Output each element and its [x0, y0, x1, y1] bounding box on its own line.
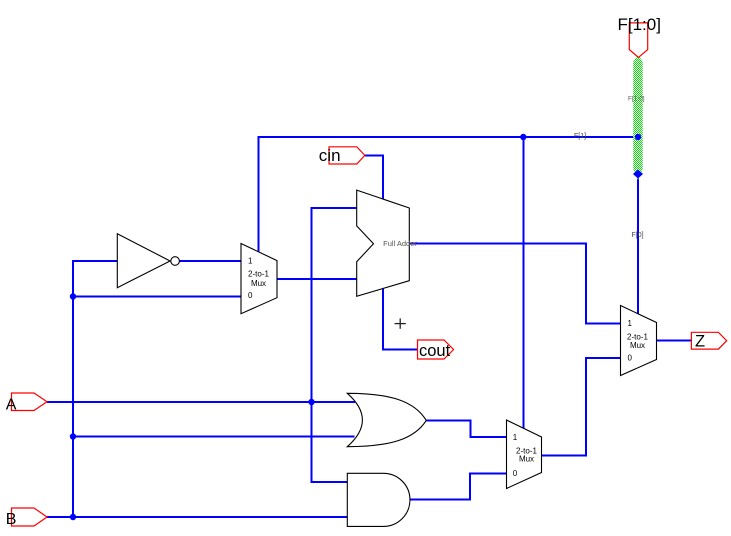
full adder U-ADD — [357, 190, 410, 296]
mux1 2-to-1 Mux (selects B or not-B) — [241, 244, 277, 314]
svg-text:1: 1 — [513, 433, 518, 442]
plus symbol under full adder — [395, 318, 406, 328]
bus F[1:0] green hatched — [633, 55, 643, 181]
svg-text:1: 1 — [248, 257, 253, 266]
wire AND output to logic mux 0-input — [410, 473, 507, 499]
svg-text:Mux: Mux — [630, 341, 645, 350]
svg-text:Z: Z — [695, 333, 705, 351]
wire logic mux output to output mux 0-input — [542, 358, 622, 455]
output port Z symbol — [691, 332, 726, 349]
svg-text:A: A — [6, 396, 17, 413]
logic mux 2-to-1 Mux (selects OR or AND) — [507, 420, 542, 489]
wire cin to full adder carry-in pin — [365, 156, 383, 200]
wire B net to OR gate bottom input — [73, 436, 355, 438]
wire A port to OR gate top input — [47, 401, 355, 403]
junction on F[1] wire at logic mux select — [520, 134, 526, 140]
wire select of logic mux from F[1] net down — [522, 137, 524, 430]
wire F[0] from bus bottom to output mux select — [637, 172, 639, 316]
svg-text:2-to-1: 2-to-1 — [248, 270, 269, 279]
junction A net on A wire — [308, 399, 314, 405]
svg-text:B: B — [6, 511, 17, 528]
svg-text:cout: cout — [419, 342, 451, 360]
svg-text:0: 0 — [628, 354, 633, 363]
wire FA carry-out to cout port — [383, 288, 418, 350]
svg-text:Mux: Mux — [251, 279, 266, 288]
svg-text:1: 1 — [628, 319, 633, 328]
wire output mux to Z port — [657, 340, 692, 342]
svg-text:F[1:0]: F[1:0] — [628, 95, 645, 102]
OR gate — [347, 393, 426, 446]
wire net F[1]: horizontal from mux1 select up to bus, with select drop — [259, 137, 639, 253]
svg-text:0: 0 — [248, 291, 253, 300]
wire inverter output to mux1 1-input — [180, 260, 242, 262]
wire B port to AND gate bottom input — [47, 516, 347, 518]
output mux 2-to-1 Mux (selects sum or logic) — [621, 306, 657, 376]
wire FA sum output to output mux 1-input — [409, 243, 621, 323]
svg-text:F[1]: F[1] — [574, 133, 586, 140]
svg-text:Full Adder: Full Adder — [383, 239, 417, 248]
svg-text:Mux: Mux — [519, 455, 534, 464]
wire B net to mux1 0-input — [73, 296, 242, 298]
svg-text:2-to-1: 2-to-1 — [627, 332, 648, 341]
junction B net on B wire — [70, 514, 76, 520]
input port B symbol — [12, 508, 48, 526]
AND gate — [347, 473, 410, 526]
bus end diamond at F[0] tap — [633, 170, 643, 179]
junction B net at mux1 0-input wire — [70, 293, 76, 299]
svg-text:F[1:0]: F[1:0] — [618, 15, 661, 34]
svg-text:cin: cin — [319, 146, 341, 165]
wire mux1 output to FA b-input — [277, 278, 357, 280]
output port cout symbol — [418, 340, 454, 359]
junction on bus at F[1] tap — [635, 134, 641, 140]
junction B net at OR bottom input wire — [70, 433, 76, 439]
wire OR output to logic mux 1-input — [426, 420, 507, 437]
svg-text:F[0]: F[0] — [632, 232, 644, 239]
inverter — [117, 234, 179, 288]
input port cin symbol — [329, 147, 365, 164]
input port A symbol — [12, 393, 48, 411]
wire B net: inverter input and long vertical down to B wire — [73, 261, 117, 517]
output port F[1:0] symbol — [629, 23, 647, 58]
svg-text:0: 0 — [513, 469, 518, 478]
wire A net vertical: FA a-input, down to A wire, down to AND input — [312, 208, 357, 482]
